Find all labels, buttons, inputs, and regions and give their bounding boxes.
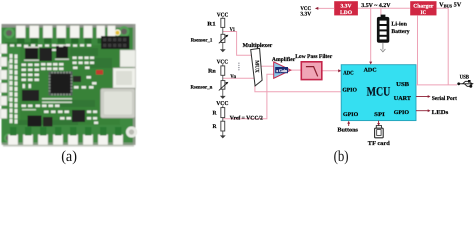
TF card icon	[375, 126, 384, 138]
svg-text:LEDs: LEDs	[432, 110, 449, 116]
svg-text:Vref = VCC/2: Vref = VCC/2	[230, 115, 263, 121]
wire buttons to MCU GPIO	[348, 123, 350, 126]
svg-text:Serial Port: Serial Port	[432, 95, 457, 102]
wire VCC to Rn	[222, 64, 224, 66]
wire MCU USB to USB connector	[416, 84, 457, 86]
wire Rsensor_n to ground	[222, 89, 224, 96]
svg-text:TF card: TF card	[368, 140, 391, 147]
svg-text:GPIO: GPIO	[343, 112, 359, 118]
svg-text:Low Pass Filter: Low Pass Filter	[295, 53, 332, 60]
wire MUX output to amplifier input	[261, 65, 274, 67]
svg-text:VBUS 5V: VBUS 5V	[439, 2, 462, 9]
ground battery	[380, 43, 385, 52]
svg-text:Amplifier: Amplifier	[272, 56, 296, 63]
svg-text:GPIO: GPIO	[394, 110, 410, 116]
svg-text:Rn: Rn	[208, 68, 216, 74]
svg-text:USB: USB	[396, 82, 409, 88]
svg-text:Vn: Vn	[230, 74, 236, 80]
wire Rsensor_1 to ground	[222, 43, 224, 50]
op-amp U2 amplifier	[272, 56, 296, 78]
wire MCU SPI to TF card	[378, 121, 380, 124]
svg-text:3.3V: 3.3V	[341, 4, 352, 10]
multiplexer U1	[243, 42, 273, 86]
svg-text:GPIO: GPIO	[342, 87, 357, 93]
MCU U4	[341, 65, 416, 121]
resistor Rn	[208, 66, 225, 75]
svg-text:3.3V: 3.3V	[300, 12, 311, 18]
PCB photo (a)	[1, 24, 138, 147]
svg-text:UART: UART	[394, 96, 411, 102]
wire LDO output to VCC	[318, 7, 334, 9]
wire charger to VBUS / USB net	[437, 8, 449, 85]
svg-text:Battery: Battery	[391, 29, 409, 35]
USB connector icon	[460, 81, 471, 86]
svg-text:Charger: Charger	[413, 4, 434, 10]
wire low pass filter output to MCU ADC	[322, 70, 339, 72]
svg-text:(b): (b)	[334, 148, 349, 165]
resistor R lower	[213, 121, 225, 131]
wire MUX select to MCU GPIO	[255, 85, 341, 92]
wire charger input tap	[417, 15, 419, 85]
svg-text:ADC: ADC	[364, 67, 377, 73]
svg-text:VCC: VCC	[216, 101, 228, 107]
svg-text:MCU: MCU	[367, 85, 391, 99]
svg-text:IC: IC	[421, 10, 427, 16]
vertical ellipsis between channels	[238, 63, 239, 71]
wire VCC to R1	[222, 17, 224, 18]
wire node Vref	[222, 118, 224, 122]
wire R lower to ground	[222, 131, 224, 136]
ground divider	[220, 135, 226, 138]
regulator 3.3V LDO	[334, 1, 358, 16]
wire R1 to Rsensor_1, node V1	[222, 27, 224, 34]
charger IC	[410, 1, 436, 16]
svg-text:x Gain: x Gain	[276, 68, 287, 73]
svg-text:Li-ion: Li-ion	[391, 22, 407, 28]
svg-text:Multiplexer: Multiplexer	[243, 42, 273, 49]
wire UART to serial port	[416, 96, 428, 98]
svg-text:ADC: ADC	[343, 71, 353, 77]
svg-text:R1: R1	[207, 22, 216, 28]
wire battery rail	[357, 7, 410, 9]
svg-text:Buttons: Buttons	[337, 128, 358, 134]
svg-text:VCC: VCC	[217, 60, 229, 66]
battery B1 Li-ion	[377, 15, 410, 43]
resistor R1	[207, 18, 224, 27]
sensor Rsensor_n (variable resistor)	[191, 81, 229, 91]
ground branch 1	[220, 49, 226, 52]
svg-text:LDO: LDO	[340, 10, 352, 16]
svg-text:Rsensor_1: Rsensor_1	[191, 38, 213, 44]
wire GPIO to LEDs	[416, 110, 428, 112]
resistor R upper	[213, 108, 225, 118]
wire rail to battery	[380, 8, 382, 15]
ground branch n	[220, 96, 226, 99]
low pass filter U3	[295, 53, 332, 80]
wire Vn net to multiplexer	[223, 77, 255, 79]
wire Vref net to amplifier inverting input	[223, 74, 274, 119]
svg-text:SPI: SPI	[374, 112, 385, 118]
svg-text:3.5V ~ 4.2V: 3.5V ~ 4.2V	[361, 3, 391, 9]
svg-text:(a): (a)	[61, 148, 77, 165]
svg-text:V1: V1	[230, 27, 236, 33]
wire VCC to R upper	[222, 106, 224, 108]
sensor Rsensor_1 (variable resistor)	[191, 34, 229, 43]
wire battery sense to MCU ADC	[370, 8, 372, 62]
svg-text:Rsensor_n: Rsensor_n	[191, 85, 213, 91]
svg-text:USB: USB	[460, 74, 470, 80]
wire V1 net to multiplexer	[223, 32, 252, 56]
wire amplifier output to low pass filter	[291, 69, 302, 71]
wire Rn to Rsensor_n, node Vn	[222, 75, 224, 80]
svg-text:MUX: MUX	[253, 60, 259, 73]
